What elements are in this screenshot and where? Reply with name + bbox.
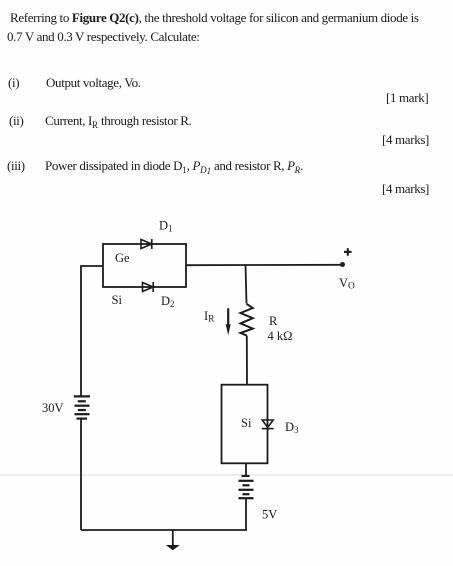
marks (iii) [382,181,429,197]
svg-text:30V: 30V [42,401,64,415]
resistor R zigzag [241,304,253,336]
item (i) [8,75,19,91]
question text line 1 [10,10,419,26]
svg-text:R: R [269,314,278,328]
label + [344,248,352,256]
box of parallel diodes Ge/Si (component outline) [103,244,186,287]
svg-text:4 kΩ: 4 kΩ [268,329,293,343]
wire 5V battery to bottom [81,498,246,530]
ground stub [172,530,174,546]
wire junction to resistor [246,265,247,304]
svg-text:Si: Si [241,416,252,430]
svg-text:Ge: Ge [115,251,130,265]
battery 30V [74,396,90,418]
svg-text:VO: VO [339,276,355,292]
item (iii) [7,158,25,174]
svg-text:5V: 5V [262,507,277,521]
svg-text:D3: D3 [285,420,299,435]
marks (i) [386,90,428,106]
wire resistor to box [246,336,248,385]
battery 5V [239,476,254,498]
marks (ii) [382,132,429,148]
diode D1 (Ge) on top edge [141,239,152,249]
item (ii) [9,113,23,129]
ground symbol arrow [166,545,180,550]
current arrow IR [226,308,231,335]
svg-text:D2: D2 [161,294,175,309]
svg-text:D1: D1 [159,219,173,234]
scan artifact line [0,474,453,476]
diode D3 pointing down on right edge of lower box [262,420,274,429]
question text line 2 [7,29,200,45]
node Vo terminal dot [340,262,345,267]
svg-text:IR: IR [204,309,215,325]
wire box to 5V battery [245,463,247,476]
diode D2 (Si) on bottom edge [143,282,154,292]
wire right output [186,264,343,266]
wire 30V battery to bottom (left rail lower part) [80,419,82,530]
svg-text:Si: Si [112,293,123,307]
wire left connector [81,266,103,396]
box of diode D3 (component outline) [222,385,268,464]
